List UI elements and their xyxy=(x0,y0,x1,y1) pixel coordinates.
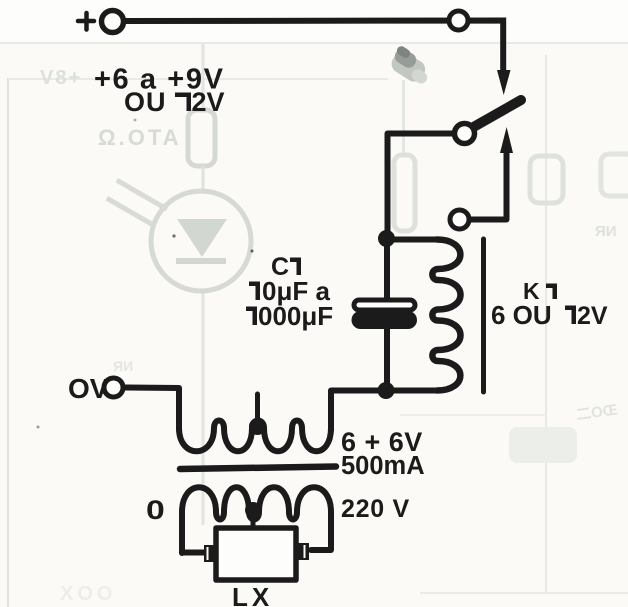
ghost page left border xyxy=(7,78,9,607)
ghost page top border xyxy=(8,78,388,80)
svg-text:ЯИ: ЯИ xyxy=(113,358,133,374)
wire coil bottom to junction dot xyxy=(388,388,437,394)
ghost wire below smudge xyxy=(402,80,405,155)
junction dot bottom xyxy=(378,382,395,399)
svg-text:Ω.OTA: Ω.OTA xyxy=(98,125,182,150)
ghost resistor R1 xyxy=(188,110,215,166)
arrowhead down to switch xyxy=(497,70,511,95)
wire 0V to winding xyxy=(124,388,179,431)
ghost smudge xyxy=(386,45,430,86)
svg-text:500mA: 500mA xyxy=(341,452,425,480)
center tap stub primary xyxy=(251,512,256,527)
ghost resistor mid xyxy=(394,155,415,231)
NC contact circle xyxy=(450,210,469,229)
svg-text:000μF: 000μF xyxy=(258,301,333,331)
ghost LED arrows xyxy=(116,178,169,211)
svg-text:OV: OV xyxy=(68,373,109,404)
lamp left prong tab xyxy=(204,545,215,562)
0V terminal circle xyxy=(104,378,123,397)
svg-text:V8+: V8+ xyxy=(40,67,82,89)
svg-text:OU: OU xyxy=(124,87,167,117)
transformer core line xyxy=(180,467,336,470)
primary left wire to lamp xyxy=(182,550,205,556)
label 10uF a xyxy=(249,282,260,301)
capacitor C1 bottom plate xyxy=(352,311,418,329)
lamp LX box xyxy=(216,528,296,580)
ghost resistor right xyxy=(530,156,563,203)
switch lever K1 contact xyxy=(470,100,521,129)
terminal circle on top wire xyxy=(449,11,468,30)
center tap stub secondary xyxy=(255,394,260,424)
junction dot top xyxy=(378,230,395,247)
ink speck xyxy=(172,234,175,237)
ghost wire vertical through LED xyxy=(202,44,205,110)
pivot circle xyxy=(455,124,475,144)
ghost blob lower right xyxy=(509,427,577,463)
top wire from + terminal to corner xyxy=(124,21,503,74)
transformer primary winding 220V xyxy=(182,487,331,553)
svg-text:2V: 2V xyxy=(192,87,225,117)
center tap dot primary xyxy=(245,502,261,518)
relay frame bar xyxy=(481,239,486,392)
svg-text:LX: LX xyxy=(232,582,273,607)
relay coil K1 xyxy=(432,240,460,391)
ghost LED D1 xyxy=(151,191,251,291)
svg-text:0: 0 xyxy=(146,495,165,525)
ghost bottom line xyxy=(420,592,628,594)
capacitor C1 top plate xyxy=(354,300,415,310)
plus sign of + terminal xyxy=(78,13,94,30)
ghost fold line top xyxy=(0,42,628,44)
wire top dot to capacitor xyxy=(384,240,390,298)
svg-text:2V: 2V xyxy=(577,302,608,330)
terminal circle + xyxy=(102,11,124,33)
label 1000uF xyxy=(246,307,257,326)
wire capacitor to bottom dot xyxy=(384,328,390,390)
ghost ruling line right xyxy=(400,414,546,416)
lamp right prong tab xyxy=(296,543,309,560)
svg-text:6 OU: 6 OU xyxy=(491,300,552,330)
svg-text:ЯИ: ЯИ xyxy=(595,223,617,240)
center tap dot secondary xyxy=(249,418,266,435)
ghost column rule right xyxy=(545,55,547,593)
wire junction top dot to coil xyxy=(387,237,437,243)
transformer secondary winding 6+6V xyxy=(179,421,331,452)
svg-text:XOO: XOO xyxy=(60,583,116,605)
ghost rect right edge xyxy=(601,154,628,196)
up arrow line from NC contact xyxy=(471,150,507,220)
arrowhead up xyxy=(500,127,513,153)
svg-text:220 V: 220 V xyxy=(341,495,410,523)
wire from pivot to left corner xyxy=(388,134,454,235)
wire bottom dot to transformer secondary xyxy=(331,391,384,431)
